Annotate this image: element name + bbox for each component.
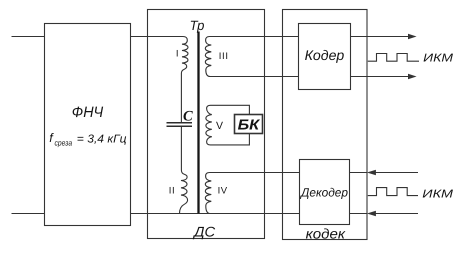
wire Декодер input bottom inside кодек <box>350 213 368 215</box>
svg-text:ДС: ДС <box>192 223 216 239</box>
wire subscriber input top-left <box>12 36 45 38</box>
wire winding V top to БК <box>211 105 250 114</box>
wire winding III bottom to Кодер <box>210 76 299 78</box>
svg-text:Тр: Тр <box>190 18 205 33</box>
block ФНЧ (low-pass filter) <box>45 24 131 226</box>
block Декодер (decoder) <box>300 160 350 225</box>
wire subscriber input bottom-left <box>12 213 45 215</box>
svg-text:Декодер: Декодер <box>299 186 348 200</box>
svg-text:I: I <box>176 49 179 60</box>
svg-text:= 3,4 кГц: = 3,4 кГц <box>77 134 127 146</box>
svg-text:II: II <box>169 186 176 197</box>
wire winding III top to Кодер <box>210 36 299 38</box>
transformer winding V <box>206 105 212 145</box>
svg-text:C: C <box>183 108 193 124</box>
waveform PCM output <box>368 54 419 62</box>
svg-text:кодек: кодек <box>306 225 347 241</box>
svg-text:V: V <box>216 120 223 132</box>
waveform PCM input <box>368 188 418 196</box>
arrowhead Кодер output bottom <box>408 74 417 80</box>
capacitor C plates <box>167 122 193 124</box>
svg-text:ИКМ: ИКМ <box>423 52 453 64</box>
wire ФНЧ output top to winding I <box>131 36 184 38</box>
wire Декодер input top inside кодек <box>350 172 368 174</box>
wire capacitor C to winding II <box>180 127 182 170</box>
wire Декодер input bottom <box>375 213 418 215</box>
wire winding IV top to Декодер <box>210 172 300 174</box>
svg-text:Кодер: Кодер <box>305 47 345 63</box>
block БК <box>235 115 263 134</box>
svg-text:IV: IV <box>218 186 228 197</box>
svg-text:БК: БК <box>238 117 261 133</box>
transformer core Тр <box>197 32 199 214</box>
wire winding I to capacitor C <box>180 73 182 122</box>
wire ФНЧ output bottom rail to winding II and winding IV <box>131 213 300 215</box>
arrowhead Декодер input top <box>367 170 376 176</box>
arrowhead Кодер output top <box>408 34 417 40</box>
transformer winding I <box>181 37 188 74</box>
svg-text:ФНЧ: ФНЧ <box>72 104 104 121</box>
box ДС (differential system, outer) <box>148 10 265 239</box>
wire Декодер input top <box>375 172 418 174</box>
arrowhead Декодер input bottom <box>367 211 376 217</box>
svg-text:III: III <box>219 51 229 62</box>
box кодек (codec, outer) <box>283 10 368 240</box>
wire Кодер output bottom <box>351 76 410 78</box>
transformer winding III <box>205 37 211 77</box>
svg-text:ИКМ: ИКМ <box>422 188 453 200</box>
wire Кодер output top <box>351 36 410 38</box>
block Кодер (coder) <box>299 24 351 90</box>
transformer winding II <box>180 170 188 214</box>
transformer winding IV <box>205 173 211 214</box>
wire winding V bottom to БК <box>211 134 250 145</box>
svg-text:среза: среза <box>55 139 73 148</box>
